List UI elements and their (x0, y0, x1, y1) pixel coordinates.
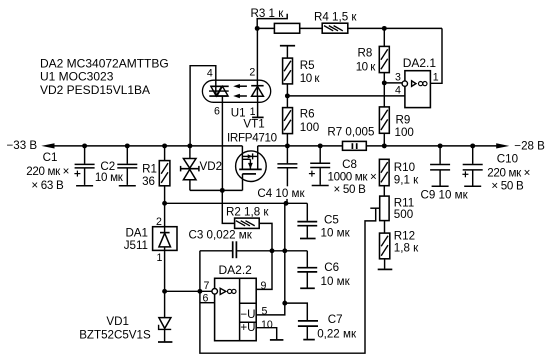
wire U1 pin4 (190, 66, 216, 146)
svg-text:1000 мк ×: 1000 мк × (328, 170, 377, 183)
svg-text:9,1 к: 9,1 к (394, 174, 419, 187)
node rail / C2 (125, 143, 130, 148)
svg-text:R4 1,5 к: R4 1,5 к (314, 10, 357, 23)
svg-text:2: 2 (249, 67, 255, 79)
svg-text:VD2: VD2 (200, 160, 223, 173)
capacitor C3 0,022мк plates (232, 241, 234, 258)
node rail / R6 / C4 (285, 143, 290, 148)
svg-text:4: 4 (395, 84, 401, 96)
svg-text:500: 500 (394, 208, 413, 221)
wire R8-R9 column (383, 28, 385, 145)
svg-text:C6: C6 (324, 261, 339, 274)
svg-text:J511: J511 (124, 239, 148, 252)
wire output rail (258, 145, 497, 147)
U1 LED element (251, 85, 263, 87)
svg-text:× 63 В: × 63 В (31, 179, 64, 192)
svg-text:220 мк ×: 220 мк × (26, 165, 69, 178)
resistor R4 1,5к (322, 23, 348, 33)
arrow -28V (496, 143, 509, 148)
svg-text:DA2.2: DA2.2 (219, 263, 253, 277)
capacitor C4 10мк (286, 146, 288, 163)
svg-text:100: 100 (395, 126, 414, 139)
svg-text:−33 В: −33 В (7, 139, 38, 152)
resistor R5 10к (283, 58, 293, 84)
wire R1 bottom to DA1 (164, 203, 166, 226)
shunt R7 0,005 (343, 141, 367, 150)
svg-text:R9: R9 (396, 113, 411, 126)
resistor R3 1к (274, 23, 299, 33)
svg-text:220 мк ×: 220 мк × (487, 167, 530, 180)
op-amp DA2.1 (405, 71, 431, 108)
node rail / C8 (318, 143, 323, 148)
svg-text:R3 1 к: R3 1 к (251, 7, 285, 20)
svg-text:C8: C8 (342, 158, 357, 171)
wire leader from label R3 to node (257, 14, 287, 29)
svg-text:× 50 В: × 50 В (334, 183, 367, 196)
wire DA1 pin1 down (164, 250, 166, 291)
svg-text:C3 0,022 мк: C3 0,022 мк (189, 229, 253, 242)
svg-text:R1: R1 (142, 163, 157, 176)
svg-text:10 мк: 10 мк (321, 227, 351, 240)
node R8-R9 / DA2.1 pin3 (382, 80, 387, 85)
svg-text:VT1: VT1 (243, 118, 264, 131)
svg-text:7: 7 (204, 280, 210, 292)
op-amp DA2.2 (215, 278, 257, 340)
wire VD2/gate node (190, 189, 243, 191)
wire mid vertical (C4 chain) (284, 203, 286, 303)
node R1 / DA1 (162, 201, 167, 206)
wire C3 bus y251 (200, 250, 232, 252)
svg-text:100: 100 (300, 121, 319, 134)
node DA1 / VD1 / DA2.2 pin7 (162, 289, 167, 294)
svg-text:VD2 PESD15VL1BA: VD2 PESD15VL1BA (40, 83, 150, 97)
svg-text:U1 MOC3023: U1 MOC3023 (40, 70, 114, 84)
svg-text:R7 0,005: R7 0,005 (327, 125, 374, 138)
svg-text:6: 6 (203, 293, 209, 305)
node DA2.2 pin5 / C7 (282, 301, 287, 306)
svg-text:× 50 В: × 50 В (491, 179, 524, 192)
svg-text:10 к: 10 к (356, 60, 377, 73)
current-regulator diode DA1 J511 (153, 227, 177, 251)
svg-text:R8: R8 (358, 47, 373, 60)
node C3 / pin7 wire (197, 289, 202, 294)
capacitor C5 10мк (306, 203, 308, 221)
node rail / C10 (470, 143, 475, 148)
terminal bar above R5 (280, 45, 295, 47)
svg-text:1: 1 (433, 71, 439, 83)
svg-text:+U: +U (240, 321, 255, 334)
svg-text:R6: R6 (300, 108, 315, 121)
svg-text:C1: C1 (43, 151, 58, 164)
wire U1 pin6 down (221, 96, 223, 190)
svg-text:R2 1,8 к: R2 1,8 к (226, 205, 269, 218)
svg-text:DA2 MC34072AMTTBG: DA2 MC34072AMTTBG (40, 56, 169, 70)
node VD2 / gate / U1 pin6 (220, 188, 225, 193)
svg-text:−28 В: −28 В (514, 139, 545, 152)
svg-text:C5: C5 (324, 214, 339, 227)
U1 light arrows (239, 85, 247, 87)
capacitor C2 10мк (126, 146, 128, 164)
capacitor C9 10мк (439, 146, 441, 164)
node R5-R6 / DA2.1 pin4 (285, 93, 290, 98)
wire DA2.1 pin4 (287, 95, 405, 97)
svg-text:9: 9 (261, 280, 267, 292)
capacitor C6 10мк (306, 251, 308, 267)
svg-text:6: 6 (214, 106, 220, 118)
wire DA2.1 pin1 to top rail (431, 28, 443, 83)
wire VT1 gate lead (242, 174, 244, 191)
optocoupler U1 MOC3023 body (202, 80, 270, 102)
node rail / C1 (82, 143, 87, 148)
wire R10-R11 (383, 186, 385, 196)
svg-text:10 к: 10 к (300, 72, 321, 85)
svg-text:4: 4 (207, 68, 213, 80)
node rail / R1 (162, 143, 167, 148)
capacitor C7 0,22мк (285, 303, 308, 320)
label C4 10 мк (256, 187, 306, 199)
resistor R1 36 (164, 146, 166, 161)
zener VD1 BZT52C5V1S (164, 291, 166, 317)
wire pin5 (256, 303, 284, 315)
trimmer tap R11 (370, 207, 380, 209)
trimmer R11 500 (380, 196, 389, 221)
svg-text:C7: C7 (328, 313, 343, 326)
wire lower bus y203 (165, 202, 308, 204)
diode VD2 (bidirectional TVS) (189, 146, 191, 159)
wire pin6 branch (200, 302, 215, 304)
svg-text:C9 10 мк: C9 10 мк (421, 189, 469, 202)
capacitor C10 220мк 50В (472, 146, 474, 164)
node C4 / C5 bus (284, 201, 289, 206)
transistor VT1 IRFP4710 (236, 151, 267, 182)
svg-text:1,8 к: 1,8 к (394, 242, 419, 255)
wire -33V rail (54, 145, 242, 147)
capacitor C1 220мк 63В (84, 146, 86, 164)
svg-text:10 мк: 10 мк (95, 171, 124, 184)
node rail / C9 (438, 143, 443, 148)
svg-text:5: 5 (262, 306, 268, 318)
svg-text:36: 36 (142, 175, 155, 188)
resistor R8 10к (379, 46, 389, 72)
node C3 bus / C6 (282, 248, 287, 253)
svg-text:1: 1 (250, 106, 256, 118)
node rail / VD2 (187, 143, 192, 148)
resistor R12 1,8к (380, 233, 390, 259)
svg-text:3: 3 (395, 71, 401, 83)
resistor R2 1,8к (235, 218, 260, 228)
capacitor C8 1000мк 50В (319, 146, 321, 163)
svg-text:−U: −U (240, 308, 255, 321)
svg-text:C4 10 мк: C4 10 мк (257, 187, 305, 200)
svg-text:2: 2 (156, 216, 162, 228)
resistor R9 100 (379, 107, 389, 133)
U1 triac element (210, 85, 228, 87)
svg-text:DA2.1: DA2.1 (403, 56, 437, 70)
svg-text:C10: C10 (497, 152, 518, 165)
wire C3 corner down to bottom bus (200, 208, 376, 353)
svg-text:BZT52C5V1S: BZT52C5V1S (79, 328, 151, 341)
arrow -33V (41, 143, 54, 148)
svg-text:1: 1 (157, 252, 163, 264)
resistor R10 9,1к (379, 159, 389, 185)
wire DA2.1 pin3 (384, 82, 402, 84)
node rail / R9 / R10 (382, 143, 387, 148)
svg-text:R10: R10 (394, 161, 415, 174)
wire VD1 node to pin7 (165, 290, 212, 292)
wire node to R2 (222, 190, 234, 223)
resistor R6 100 (283, 108, 293, 134)
node top rail / R8 (382, 26, 387, 31)
node R2 / DA2.2 pin9 (270, 248, 275, 253)
svg-text:VD1: VD1 (106, 315, 129, 328)
wire top rail (257, 27, 442, 29)
wire U1 pin1 to open terminal (257, 96, 259, 117)
svg-text:R5: R5 (300, 59, 315, 72)
svg-text:0,22 мк: 0,22 мк (317, 327, 357, 340)
wire C4 bottom stem (286, 199, 288, 204)
wire U1 pin2 up to rail (256, 28, 258, 96)
wire R11-R12 (384, 221, 386, 234)
svg-text:10 мк: 10 мк (321, 275, 351, 288)
wire R2 right to pin9 riser (256, 223, 272, 289)
svg-text:10: 10 (261, 319, 273, 331)
svg-text:IRFP4710: IRFP4710 (227, 132, 277, 145)
node top rail / U1 pin2 (255, 26, 260, 31)
wire R5-R6 column (286, 46, 288, 146)
svg-text:DA1: DA1 (125, 227, 148, 240)
wire pin10 to open terminal (256, 328, 276, 340)
